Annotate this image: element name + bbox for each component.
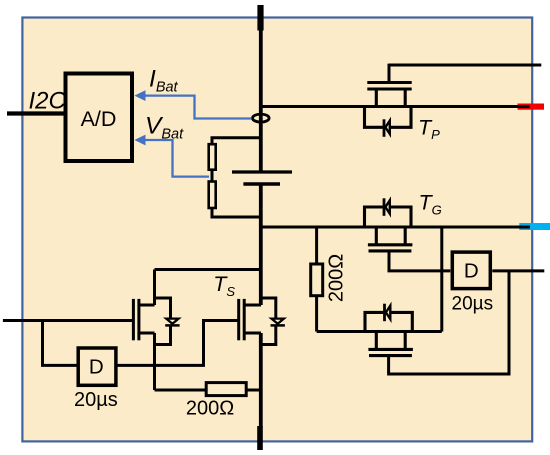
wire TP gate lead [388,64,391,82]
wire source resistor rail right [246,389,261,392]
transistor TS right [239,298,276,345]
resistor divider R2 [209,182,216,209]
svg-text:200Ω: 200Ω [326,254,348,302]
TG body diode D2 [383,198,386,216]
svg-text:200Ω: 200Ω [186,398,234,420]
svg-text:D: D [464,260,479,283]
svg-text:20µs: 20µs [74,389,118,411]
transistor TS left [133,270,170,391]
wire TG gate to D input [389,251,450,271]
wire delay branch left [43,321,77,366]
wire TS top rail [155,268,262,271]
wire TG rail [261,226,530,229]
svg-text:A/D: A/D [81,107,117,131]
wire 200ohm vertical bottom lead [315,296,318,332]
delay block D right [452,252,490,289]
svg-text:I2C: I2C [29,88,67,115]
svg-text:20µs: 20µs [452,294,494,315]
wire low FET rail [317,330,442,333]
wire left D to TS2 gate [116,321,239,366]
wire TG drain to low FET [440,227,443,332]
battery negative plate [243,182,280,185]
transistor TP [365,83,412,128]
main bus bottom cap [257,426,263,450]
TS right body diode D5 [271,324,285,327]
main bus bottom segment [259,333,263,427]
resistor divider R1 [209,144,216,170]
wire source resistor rail left [155,389,207,392]
transistor TG [365,207,413,251]
TP body diode D1 [383,119,386,137]
wire 200ohm vertical top lead [315,227,318,264]
wire divider top [212,138,261,144]
resistor 200ohm vertical R3 [311,264,323,296]
wire divider mid [211,170,214,182]
wire TP drain rail [261,105,530,108]
delay block D left [78,348,116,385]
main bus lower segment [259,185,263,306]
battery positive plate [232,170,292,173]
resistor 200ohm horizontal R4 [206,383,246,396]
main bus top cap [257,5,263,31]
cyan terminal stub [519,223,550,230]
wire I2C [7,111,64,115]
signal IBat arrow [144,96,252,119]
red terminal stub [518,104,545,110]
svg-text:D: D [89,356,104,379]
wire low FET gate to D output [389,271,509,374]
TG2 body diode D3 [383,304,386,322]
A/D box U1 [66,74,133,162]
wire left gate input [3,319,134,322]
transistor TG2 lower back-to-back FET [365,312,413,355]
current sensor ellipse [252,114,269,122]
wire D output right [492,269,544,272]
main bus upper segment [259,28,263,171]
TS left body diode D4 [165,324,179,327]
wire divider bottom [212,208,261,217]
signal VBat arrow [144,140,209,177]
wire TP gate top rail [389,64,541,67]
